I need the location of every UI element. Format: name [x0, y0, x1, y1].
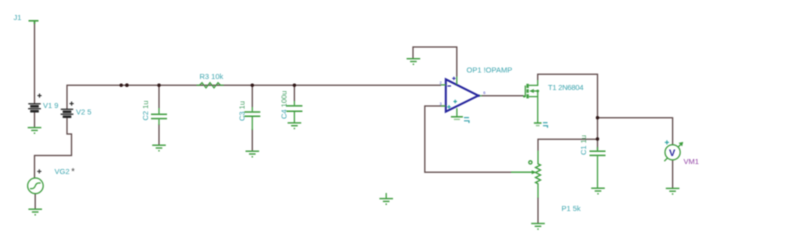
svg-text:2: 2 [440, 80, 443, 85]
svg-text:V: V [669, 148, 676, 159]
svg-text:R3 10k: R3 10k [200, 72, 224, 81]
svg-text:C2 1u: C2 1u [141, 100, 150, 120]
svg-text:OP1 !OPAMP: OP1 !OPAMP [467, 66, 513, 75]
svg-text:J1: J1 [14, 13, 22, 22]
svg-text:3: 3 [440, 101, 443, 106]
svg-text:6: 6 [483, 90, 486, 95]
svg-text:C4 100u: C4 100u [279, 91, 288, 119]
svg-text:C3 1u: C3 1u [237, 101, 246, 121]
svg-text:VM1: VM1 [684, 157, 699, 166]
svg-text:V2 5: V2 5 [76, 108, 91, 117]
svg-text:T1 2N6804: T1 2N6804 [548, 83, 583, 92]
svg-text:V1 9: V1 9 [43, 101, 58, 110]
svg-text:C1 1u: C1 1u [579, 135, 588, 155]
svg-text:VG2: VG2 [55, 167, 70, 176]
svg-text:*: * [71, 167, 75, 177]
svg-text:P1 5k: P1 5k [562, 204, 581, 213]
